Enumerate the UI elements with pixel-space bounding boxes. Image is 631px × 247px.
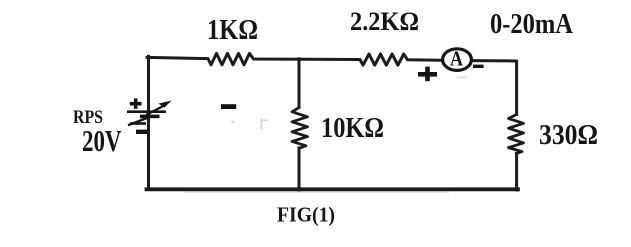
svg-text:0-20mA: 0-20mA (490, 8, 573, 40)
svg-text:330Ω: 330Ω (539, 119, 598, 151)
svg-text:1KΩ: 1KΩ (207, 14, 258, 46)
svg-text:2.2KΩ: 2.2KΩ (350, 7, 419, 36)
svg-text:A: A (450, 46, 463, 70)
svg-text:FIG(1): FIG(1) (277, 203, 335, 227)
svg-text:10KΩ: 10KΩ (321, 113, 384, 144)
svg-text:20V: 20V (82, 124, 122, 158)
